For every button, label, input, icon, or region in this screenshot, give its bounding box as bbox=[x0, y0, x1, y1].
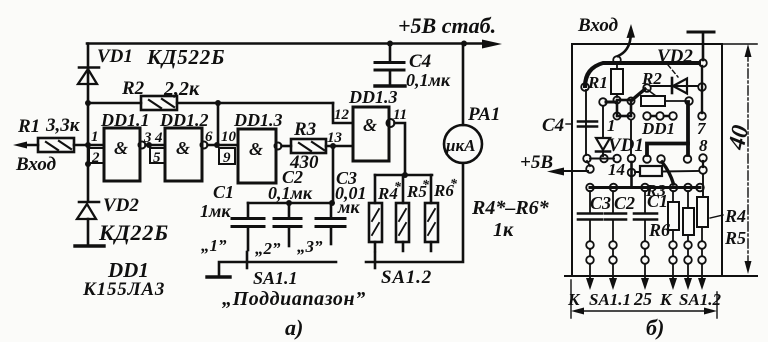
resistor R5 (pcb) bbox=[683, 191, 694, 241]
svg-text:„3”: „3” bbox=[297, 237, 323, 256]
wire gate4 output down to R4-R6 rail bbox=[395, 123, 406, 175]
svg-text:DD1.3: DD1.3 bbox=[348, 87, 398, 107]
wire pin14 column upper bbox=[630, 120, 632, 155]
dimension arrowhead left bbox=[571, 308, 584, 315]
capacitor C4 bbox=[375, 44, 404, 85]
svg-text:6: 6 bbox=[205, 129, 213, 145]
junction rail/C4 bbox=[387, 41, 393, 47]
svg-text:&: & bbox=[176, 138, 190, 158]
leader dashed VD2 bbox=[668, 65, 678, 77]
leader R4 bbox=[710, 215, 723, 218]
capacitor C2 bbox=[274, 203, 301, 246]
trace bottom bus (pcb) bbox=[590, 186, 700, 189]
trace diagonal to R2 bbox=[632, 89, 645, 100]
node gate4 inverter circle bbox=[387, 119, 395, 127]
pad VD1 column top bbox=[599, 98, 607, 106]
board bottom line extended bbox=[565, 275, 757, 277]
svg-text:VD2: VD2 bbox=[103, 195, 139, 216]
wire R3 leads bbox=[635, 171, 699, 172]
pads and arrow column R4 bbox=[698, 241, 706, 290]
svg-text:3: 3 bbox=[143, 130, 152, 146]
svg-text:13: 13 bbox=[327, 130, 343, 146]
svg-text:10: 10 bbox=[221, 129, 237, 145]
svg-text:R4*–R6*: R4*–R6* bbox=[471, 197, 550, 219]
svg-text:*: * bbox=[422, 178, 430, 193]
svg-text:DD1.2: DD1.2 bbox=[159, 110, 209, 130]
svg-text:+5В стаб.: +5В стаб. bbox=[398, 13, 496, 38]
wire gate3 to R3 bbox=[282, 145, 292, 148]
trace thick R2 net vertical bbox=[686, 103, 690, 155]
capacitor C3 bbox=[316, 203, 345, 244]
svg-text:2,2к: 2,2к bbox=[163, 78, 200, 100]
diode VD2 bbox=[77, 202, 99, 244]
pad C4 bottom bbox=[583, 155, 591, 163]
node DD1.3 inverter circle bbox=[275, 143, 282, 150]
capacitor C2 (pcb) bbox=[605, 191, 626, 241]
ground bar under VD2 bbox=[75, 244, 104, 247]
junction rail/pin2 bbox=[85, 161, 91, 167]
svg-text:мк: мк bbox=[337, 197, 360, 217]
pads and arrow column C3 bbox=[586, 241, 594, 290]
pad terminal bbox=[699, 59, 707, 67]
dimension extension top bbox=[722, 43, 757, 45]
pad R1 top bbox=[613, 56, 621, 64]
wire node13 down to bus bbox=[332, 146, 335, 203]
resistor R2 (pcb) bbox=[641, 96, 665, 106]
diode VD1 (pcb) bbox=[596, 138, 610, 156]
svg-text:DD1.3: DD1.3 bbox=[233, 110, 283, 130]
pin 5 box bbox=[150, 148, 165, 166]
wire terminal stem bbox=[702, 32, 705, 60]
wire pin12 feed bbox=[333, 103, 353, 123]
svg-text:9: 9 bbox=[223, 150, 231, 166]
junction rail/input bbox=[85, 142, 91, 148]
junction bus/node13 bbox=[329, 200, 335, 206]
svg-text:&: & bbox=[114, 138, 128, 158]
gate DD1.4 (labelled DD1.3 in original) bbox=[353, 107, 389, 161]
svg-text:+5В: +5В bbox=[520, 152, 553, 173]
svg-text:2: 2 bbox=[91, 150, 100, 166]
resistor R1 (pcb) bbox=[611, 64, 623, 97]
dimension extension lines bottom bbox=[571, 280, 717, 318]
pad R2 right bbox=[685, 97, 693, 105]
switch SA1.1 common wire bbox=[219, 262, 336, 275]
svg-text:0,1мк: 0,1мк bbox=[406, 70, 451, 90]
svg-text:SA1.1: SA1.1 bbox=[253, 268, 298, 288]
resistor R5 bbox=[396, 203, 409, 242]
svg-text:„Поддиапазон”: „Поддиапазон” bbox=[222, 288, 366, 310]
trace through C4 bbox=[585, 90, 587, 155]
svg-text:R1: R1 bbox=[587, 73, 608, 92]
pad +5V bbox=[586, 165, 594, 173]
diode VD2 (pcb) bbox=[651, 78, 698, 94]
pin 9 box bbox=[219, 148, 235, 166]
pads and arrow column C1 bbox=[641, 241, 649, 290]
svg-text:R2: R2 bbox=[121, 78, 145, 99]
junction pin6/pin10/feedback bbox=[214, 142, 220, 148]
svg-text:SA1.2: SA1.2 bbox=[679, 290, 722, 309]
svg-text:C1: C1 bbox=[213, 182, 234, 202]
pad VD1 bottom bbox=[600, 155, 608, 163]
svg-text:R6: R6 bbox=[648, 220, 670, 240]
svg-text:SA1.2: SA1.2 bbox=[381, 267, 432, 288]
svg-text:C4: C4 bbox=[409, 51, 431, 72]
svg-text:R3: R3 bbox=[293, 119, 316, 140]
dimension arrowhead right bbox=[704, 308, 717, 315]
svg-text:К: К bbox=[567, 290, 581, 309]
pad VD2 right bbox=[698, 83, 706, 91]
resistor R4 (pcb) bbox=[697, 197, 708, 241]
pads and arrow column R5 bbox=[684, 241, 692, 290]
pad DD1 row a bbox=[643, 112, 651, 120]
svg-text:*: * bbox=[394, 180, 402, 195]
svg-text:C2: C2 bbox=[614, 193, 635, 213]
svg-text:12: 12 bbox=[334, 107, 350, 123]
dimension bottom line bbox=[578, 310, 710, 312]
pad pin7 bbox=[698, 112, 706, 120]
junction rail/R2 bbox=[85, 100, 91, 106]
ground bar SA1.1 bbox=[207, 275, 230, 278]
trace pad square DD1 pin1 bbox=[617, 100, 631, 116]
pad pin14 column top bbox=[628, 155, 636, 163]
svg-text:К155ЛА3: К155ЛА3 bbox=[82, 279, 165, 300]
svg-text:DD1: DD1 bbox=[641, 119, 675, 138]
trace link to left pad bbox=[606, 101, 615, 104]
node +5V rail output arrowhead bbox=[482, 40, 502, 49]
wire R2 left lead bbox=[648, 90, 656, 96]
pads and arrow column R6 bbox=[669, 241, 677, 290]
svg-text:8: 8 bbox=[699, 136, 708, 155]
trace pin8 link bbox=[702, 161, 704, 167]
switch SA1.2 contact tick bbox=[374, 253, 377, 268]
svg-text:*: * bbox=[450, 177, 458, 192]
capacitor C1 bbox=[232, 203, 264, 250]
pad C3 top bbox=[586, 184, 594, 192]
pad square top-right bbox=[627, 97, 634, 104]
pad R6 top bbox=[670, 184, 678, 192]
wire R4-R6 top rail bbox=[375, 174, 432, 177]
wire left vertical rail bbox=[87, 44, 90, 202]
trace pad link diagonal bbox=[587, 161, 590, 166]
gate DD1.1 bbox=[104, 128, 140, 181]
junction pin3/pin4/pin5 bbox=[146, 142, 152, 148]
wire R4-R6 top leads bbox=[375, 175, 431, 203]
svg-text:SA1.1: SA1.1 bbox=[589, 290, 631, 309]
svg-text:&: & bbox=[249, 139, 263, 159]
svg-text:PA1: PA1 bbox=[467, 104, 500, 125]
pad DD1 row c bbox=[669, 112, 677, 120]
resistor R3 bbox=[291, 139, 326, 153]
pads and arrow column C2 bbox=[609, 241, 617, 290]
pad square bottom-left bbox=[613, 112, 620, 119]
wire gate2 to gate3 bbox=[208, 144, 239, 147]
junction bus/C2 bbox=[286, 200, 292, 206]
trace pin7 column bbox=[701, 66, 703, 113]
wire feedback vertical bbox=[217, 103, 220, 145]
svg-text:R4: R4 bbox=[724, 206, 746, 226]
gate DD1.3 bbox=[238, 129, 276, 183]
svg-text:„2”: „2” bbox=[255, 239, 281, 258]
wire VD1 top lead bbox=[602, 106, 604, 137]
svg-text:4: 4 bbox=[154, 130, 163, 146]
dimension line 40 (right) bbox=[747, 52, 749, 264]
wire Вход arrow curve bbox=[618, 38, 631, 56]
svg-text:C3: C3 bbox=[590, 193, 611, 213]
resistor R3 (pcb) bbox=[640, 166, 662, 176]
resistor R6 (pcb) bbox=[668, 191, 679, 241]
ground bar under C4 bbox=[375, 84, 405, 87]
node Вход arrowhead bbox=[627, 24, 636, 38]
node DD1.1 inverter circle bbox=[139, 142, 146, 149]
svg-text:14: 14 bbox=[608, 160, 625, 179]
svg-text:11: 11 bbox=[393, 107, 407, 123]
svg-text:C4: C4 bbox=[542, 115, 564, 136]
svg-text:&: & bbox=[363, 115, 377, 135]
pad under П right bbox=[684, 155, 692, 163]
node input arrowhead bbox=[13, 142, 27, 149]
resistor R4 bbox=[369, 203, 382, 242]
svg-text:К: К bbox=[659, 290, 673, 309]
svg-text:1мк: 1мк bbox=[200, 201, 231, 221]
svg-text:„1”: „1” bbox=[201, 236, 227, 255]
pad C1 top bbox=[641, 184, 649, 192]
wire gate1 to gate2 bbox=[146, 144, 166, 147]
node +5V arrowhead bbox=[547, 168, 564, 176]
wire PA1 down to SA1.2 common bbox=[366, 163, 463, 262]
svg-text:μкА: μкА bbox=[445, 136, 475, 155]
pad R2 left bbox=[643, 84, 651, 92]
pin 2 box bbox=[89, 148, 104, 166]
switch SA1.1 contact tick „1” bbox=[246, 252, 249, 268]
gate DD1.2 bbox=[165, 128, 202, 181]
trace input thick curve bbox=[585, 63, 699, 86]
wire R2 row bbox=[88, 102, 333, 105]
capacitor C1 (pcb) bbox=[634, 191, 657, 241]
wire R3 to gate4 pin13 bbox=[326, 145, 353, 148]
wire input row bbox=[25, 144, 104, 147]
trace DD1 row links bbox=[651, 115, 669, 118]
resistor R1 bbox=[38, 138, 74, 152]
svg-text:КД22Б: КД22Б bbox=[98, 220, 169, 245]
node DD1.2 inverter circle bbox=[201, 142, 208, 149]
pad R4 mid bbox=[696, 184, 704, 192]
svg-text:а): а) bbox=[285, 315, 303, 340]
wire pin8 down to R4 bbox=[702, 174, 704, 197]
pad input left bbox=[581, 83, 589, 91]
svg-text:VD2: VD2 bbox=[657, 46, 693, 67]
svg-text:C1: C1 bbox=[647, 191, 668, 211]
diode VD1 bbox=[78, 68, 99, 85]
wire +5V top rail bbox=[87, 42, 490, 45]
svg-text:25: 25 bbox=[633, 289, 652, 309]
svg-text:DD1.1: DD1.1 bbox=[100, 110, 150, 130]
svg-text:40: 40 bbox=[724, 123, 755, 153]
svg-text:Вход: Вход bbox=[577, 15, 618, 36]
wire R2 right lead bbox=[665, 100, 689, 102]
svg-text:R1: R1 bbox=[17, 116, 40, 137]
svg-text:Вход: Вход bbox=[15, 154, 56, 175]
dimension arrowhead down bbox=[745, 261, 752, 274]
svg-text:1: 1 bbox=[607, 116, 616, 135]
svg-text:3,3к: 3,3к bbox=[45, 115, 81, 136]
pad C2 top bbox=[610, 184, 618, 192]
resistor R6 bbox=[425, 203, 438, 242]
junction pin13/C3 bbox=[330, 143, 336, 149]
capacitor C4 (pcb) bbox=[578, 122, 597, 127]
resistor R2 bbox=[141, 96, 177, 110]
trace diagonal to R6 top bbox=[662, 162, 674, 184]
wire pin14 column down bbox=[630, 162, 633, 187]
junction rail/PA1 bbox=[461, 41, 467, 47]
svg-text:б): б) bbox=[646, 315, 664, 340]
dimension arrowhead up bbox=[745, 44, 752, 57]
svg-text:1к: 1к bbox=[493, 219, 514, 241]
wire capacitor top bus bbox=[248, 202, 333, 205]
capacitor C3 (pcb) bbox=[578, 191, 602, 241]
pad under П left bbox=[643, 155, 651, 163]
pad R3 left bbox=[628, 169, 636, 177]
pad DD1 row b bbox=[656, 112, 664, 120]
wire R4-R6 bottom leads bbox=[375, 242, 431, 251]
junction output/R4-R6 rail bbox=[402, 172, 408, 178]
svg-text:КД522Б: КД522Б bbox=[146, 45, 225, 69]
pad pin8 lower bbox=[699, 166, 707, 174]
svg-text:VD1: VD1 bbox=[97, 46, 133, 67]
pad square top-left bbox=[613, 96, 620, 103]
pad pin14 row right bbox=[613, 155, 621, 163]
meter PA1 bbox=[444, 125, 482, 163]
pad mid row bbox=[657, 155, 665, 163]
svg-text:0,1мк: 0,1мк bbox=[268, 183, 313, 203]
terminal top bar bbox=[688, 31, 714, 34]
svg-text:R5: R5 bbox=[724, 228, 746, 248]
trace thick П shape bbox=[647, 144, 688, 156]
pad R5 top bbox=[684, 184, 692, 192]
junction R2/feedback bbox=[215, 100, 221, 106]
trace pin14 row bbox=[590, 158, 614, 160]
leader C4 bbox=[566, 123, 572, 125]
board outline bbox=[572, 44, 722, 276]
wire PA1 top lead bbox=[462, 44, 465, 126]
pad square bottom-right bbox=[627, 112, 634, 119]
svg-text:5: 5 bbox=[153, 150, 161, 166]
wire +5V out bbox=[556, 170, 588, 172]
svg-text:1: 1 bbox=[91, 129, 99, 145]
pad pin8 upper bbox=[699, 154, 707, 162]
svg-text:VD1: VD1 bbox=[608, 135, 644, 156]
